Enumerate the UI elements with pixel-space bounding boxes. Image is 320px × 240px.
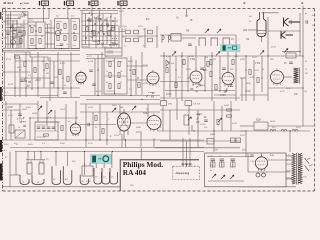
wire bbox=[82, 25, 118, 27]
wire bbox=[169, 110, 171, 140]
small box pair bbox=[231, 138, 236, 143]
junction bbox=[25, 87, 26, 88]
wire bbox=[240, 94, 268, 96]
wire to adapter pin 2 bbox=[186, 141, 188, 165]
wire bbox=[286, 177, 293, 179]
capacitor bbox=[6, 33, 10, 34]
tuning indicator tube bbox=[257, 12, 279, 37]
junction speck bbox=[35, 30, 37, 32]
junction speck bbox=[85, 37, 87, 39]
labels under tube 4B3 bbox=[191, 84, 205, 92]
resistor in can bbox=[118, 84, 120, 89]
sheet border left dash-dot bbox=[2, 9, 4, 192]
trimmer arrow bbox=[218, 118, 222, 122]
shield can IF3 bbox=[71, 19, 80, 49]
junction bbox=[110, 35, 111, 36]
wire bbox=[106, 17, 108, 44]
capacitor bbox=[200, 68, 204, 69]
wire bus top bbox=[160, 55, 240, 57]
junction bbox=[245, 55, 246, 56]
wire bus bbox=[240, 55, 303, 57]
capacitor bbox=[13, 29, 17, 30]
wire bbox=[163, 52, 165, 101]
wire bbox=[227, 52, 229, 73]
wire bbox=[106, 112, 108, 145]
resistor bbox=[95, 116, 97, 121]
wire bus bbox=[80, 95, 160, 97]
resistor bbox=[215, 85, 217, 90]
wire bus bbox=[3, 50, 80, 52]
wire bbox=[67, 152, 69, 167]
sheet border bottom dashed bbox=[3, 190, 315, 192]
wire bbox=[187, 56, 189, 92]
wire bbox=[16, 20, 18, 48]
small box PV bbox=[207, 139, 214, 145]
capacitor bbox=[20, 80, 24, 81]
capacitor bbox=[18, 114, 22, 115]
input socket box 2 bbox=[185, 101, 192, 106]
wire bbox=[3, 109, 20, 111]
small parts top-left bbox=[20, 12, 26, 17]
IF can S3 top symbol bbox=[89, 1, 98, 6]
junction bbox=[55, 151, 56, 152]
wire bbox=[6, 43, 22, 45]
highlight badge on capacitor 4C52 bbox=[221, 45, 241, 52]
IF can S2 top symbol bbox=[65, 1, 74, 6]
junction speck bbox=[29, 25, 31, 27]
resistor bbox=[227, 109, 232, 111]
wire from S1 down bbox=[42, 6, 44, 23]
wire tube to output transformer bbox=[284, 76, 292, 78]
resistor bbox=[227, 115, 232, 117]
wire bbox=[57, 52, 59, 97]
labels under tube 4B4 bbox=[224, 84, 233, 92]
wire bbox=[160, 139, 204, 141]
svg-text:5k: 5k bbox=[120, 82, 122, 84]
wire bbox=[31, 57, 33, 90]
wire bbox=[81, 11, 83, 49]
resistor bbox=[257, 78, 259, 83]
trimmer circle bbox=[55, 30, 60, 35]
choke bump 1 bbox=[270, 129, 276, 131]
trimmer capacitor block 4 bbox=[134, 38, 139, 42]
wire bbox=[46, 101, 48, 126]
wire bbox=[27, 152, 29, 161]
tube 4B6 output pentode bbox=[118, 113, 131, 131]
wire bbox=[240, 186, 296, 188]
trimmer arrow bbox=[217, 29, 221, 33]
wire bbox=[65, 104, 67, 140]
junction speck bbox=[167, 61, 168, 62]
junction speck bbox=[97, 69, 98, 70]
resistor bbox=[183, 60, 185, 65]
wire bbox=[95, 17, 97, 48]
wire bbox=[268, 30, 300, 32]
tube 4B2 detector/AF bbox=[147, 70, 159, 86]
junction speck bbox=[60, 29, 62, 31]
wire bbox=[230, 101, 232, 131]
junction bbox=[125, 139, 126, 140]
wire bbox=[28, 18, 49, 20]
svg-text:RA 404: RA 404 bbox=[123, 168, 147, 177]
wire to transformer bbox=[268, 159, 290, 161]
wire bus bbox=[160, 140, 240, 142]
wire tube 4B3 anode bbox=[195, 46, 197, 71]
svg-text:4C60: 4C60 bbox=[200, 124, 206, 126]
wire bbox=[289, 131, 291, 152]
wire bbox=[12, 20, 14, 48]
resistor 4R3 bbox=[31, 39, 33, 44]
junction bbox=[193, 130, 194, 131]
trimmer arrow bbox=[38, 106, 42, 110]
svg-text:10k: 10k bbox=[205, 57, 208, 59]
resistor in can bbox=[109, 84, 111, 89]
resistor bbox=[67, 77, 69, 82]
svg-text:50: 50 bbox=[16, 144, 18, 146]
resistor 4R9 bbox=[74, 25, 76, 30]
wire bbox=[141, 52, 143, 95]
trimmer arrow bbox=[48, 110, 52, 114]
wire bus bbox=[240, 130, 310, 132]
junction bbox=[99, 139, 100, 140]
wire bbox=[85, 104, 87, 147]
svg-text:150: 150 bbox=[33, 26, 36, 28]
junction speck bbox=[43, 69, 44, 70]
wire bbox=[82, 20, 118, 22]
wire stub tick bbox=[185, 15, 188, 17]
capacitor bbox=[222, 68, 226, 69]
svg-text:Adapterplugg: Adapterplugg bbox=[176, 172, 190, 175]
svg-text:0,5M: 0,5M bbox=[224, 105, 229, 107]
resistor bbox=[108, 31, 110, 36]
svg-text:4z: 4z bbox=[312, 15, 314, 17]
resistor in can bbox=[109, 62, 111, 67]
wire to title box area bbox=[140, 148, 142, 160]
IF can S4 top symbol bbox=[118, 1, 127, 6]
capacitor 4C4 bbox=[60, 44, 64, 45]
trimmer arrow bbox=[260, 51, 264, 55]
wire bbox=[26, 159, 45, 161]
tube 4B1 IF amplifier bbox=[76, 70, 86, 84]
wire AVC bus bbox=[3, 87, 80, 89]
junction speck bbox=[62, 77, 63, 78]
svg-text:25.07: 25.07 bbox=[252, 57, 258, 59]
junction speck bbox=[91, 30, 93, 32]
svg-text:25k: 25k bbox=[304, 91, 307, 93]
junction bbox=[102, 31, 103, 32]
wire bbox=[11, 36, 22, 38]
junction bbox=[112, 151, 113, 152]
wire bbox=[97, 55, 99, 96]
switch wafer 8 bbox=[110, 168, 118, 184]
junction bbox=[46, 117, 47, 118]
mains transformer primary winding bbox=[292, 154, 295, 185]
svg-text:45.07: 45.07 bbox=[271, 47, 277, 49]
pot box bbox=[9, 125, 14, 133]
adapter socket dashed box bbox=[173, 166, 200, 179]
wire bbox=[175, 56, 177, 97]
svg-text:15: 15 bbox=[312, 25, 314, 27]
resistor bbox=[61, 126, 63, 131]
capacitor bbox=[92, 84, 96, 85]
wire bbox=[10, 174, 20, 176]
choke bump 2 bbox=[281, 129, 287, 131]
filament circle b bbox=[262, 173, 266, 177]
resistor bbox=[166, 68, 168, 73]
wire bbox=[101, 52, 103, 95]
wire bbox=[110, 14, 112, 49]
padder cap 2 bbox=[211, 38, 218, 46]
resistor 4R4 bbox=[39, 39, 41, 44]
wire bbox=[92, 112, 94, 140]
sheet border top dashed bbox=[3, 8, 315, 10]
wire bbox=[53, 61, 55, 88]
wire bbox=[6, 14, 29, 16]
wire bbox=[88, 17, 90, 48]
wire bbox=[14, 54, 80, 56]
junction bbox=[245, 130, 246, 131]
wire bbox=[5, 101, 7, 140]
wire bbox=[153, 138, 155, 148]
resistor 4R10 bbox=[74, 36, 76, 41]
junction speck bbox=[129, 69, 130, 70]
resistor bbox=[86, 27, 88, 32]
mains transformer secondary winding bbox=[299, 154, 302, 184]
wire bbox=[4, 52, 6, 101]
earth arrow bbox=[212, 174, 216, 178]
wire bbox=[165, 90, 235, 92]
junction bbox=[289, 130, 290, 131]
resistor bbox=[207, 62, 209, 67]
wire bbox=[181, 52, 183, 101]
resistor bbox=[133, 70, 135, 75]
wire bbox=[127, 79, 148, 81]
wire bbox=[121, 134, 123, 148]
svg-text:4R45: 4R45 bbox=[28, 144, 33, 146]
resistor bbox=[249, 70, 251, 75]
junction bbox=[16, 34, 17, 35]
wire stub from top border bbox=[186, 9, 188, 17]
wire bbox=[282, 51, 301, 53]
wire bbox=[140, 131, 142, 147]
trimmer arrow bbox=[284, 49, 288, 53]
tube 4B4 bbox=[222, 71, 234, 87]
wire bbox=[241, 78, 243, 101]
wire bbox=[9, 152, 11, 188]
wire power box bottom bbox=[208, 180, 244, 182]
capacitor 4C2 bbox=[18, 31, 22, 32]
wire long bus bbox=[158, 130, 245, 132]
svg-text:1M: 1M bbox=[46, 73, 49, 75]
wire bbox=[247, 153, 249, 172]
wire bbox=[86, 54, 104, 56]
wire bbox=[181, 37, 196, 39]
adapter pin 3 bbox=[189, 164, 192, 167]
svg-text:1k: 1k bbox=[18, 127, 20, 129]
wire bbox=[55, 152, 57, 167]
svg-text:JA.: JA. bbox=[176, 17, 180, 20]
wire inside power box bbox=[207, 156, 250, 158]
wire bbox=[261, 56, 263, 92]
wire rectifier anode bbox=[261, 154, 263, 157]
wire to adapter pin 3 bbox=[189, 138, 191, 165]
wire bbox=[82, 40, 118, 42]
svg-text:4R36: 4R36 bbox=[286, 88, 291, 90]
wire bus bbox=[86, 99, 160, 101]
scan mark left edge b bbox=[0, 140, 2, 152]
junction bbox=[14, 87, 15, 88]
wire bbox=[204, 56, 206, 92]
wire bbox=[80, 124, 116, 126]
wire bbox=[15, 152, 17, 176]
wire bbox=[45, 32, 55, 34]
junction bbox=[141, 99, 142, 100]
svg-text:4C25: 4C25 bbox=[8, 84, 14, 86]
svg-text:4R30: 4R30 bbox=[220, 95, 226, 97]
capacitor electrolytic bbox=[63, 92, 67, 93]
box with diagonal bbox=[15, 130, 25, 138]
wire bbox=[6, 18, 22, 20]
wire bbox=[7, 14, 9, 48]
shield can IF4 bbox=[104, 58, 127, 94]
tube 4B5 output pentode bbox=[271, 69, 284, 86]
trimmer capacitor block 5 bbox=[148, 30, 153, 34]
svg-text:10k NS: 10k NS bbox=[193, 104, 201, 106]
svg-text:4R9: 4R9 bbox=[243, 30, 248, 32]
wire bbox=[37, 52, 39, 97]
wire bbox=[82, 35, 118, 37]
junction bbox=[85, 139, 86, 140]
trimmer capacitor block 2 bbox=[134, 30, 139, 34]
padder cap 1 bbox=[199, 38, 206, 46]
resistor bbox=[232, 60, 234, 65]
labels cluster bbox=[24, 78, 40, 86]
tone control cluster bbox=[197, 114, 207, 123]
junction speck bbox=[73, 32, 75, 34]
electrolytic block bbox=[82, 166, 93, 176]
EQ box bbox=[254, 122, 268, 130]
resistor bbox=[59, 70, 61, 75]
svg-text:25k: 25k bbox=[305, 73, 308, 75]
shield can AF bbox=[35, 122, 58, 140]
junction speck bbox=[261, 77, 262, 78]
sheet border right dashed bbox=[314, 9, 316, 192]
wire bus bbox=[155, 147, 240, 149]
wire long bbox=[82, 31, 125, 33]
wire bbox=[14, 55, 16, 98]
wire bbox=[267, 56, 269, 101]
svg-text:NSV: NSV bbox=[214, 150, 219, 152]
wire bbox=[82, 47, 119, 49]
transformer lead bbox=[286, 156, 292, 179]
wire HT rail bbox=[302, 9, 304, 126]
wire bbox=[45, 27, 55, 29]
wire to adapter pin 1 bbox=[182, 138, 184, 165]
wire bbox=[240, 77, 246, 79]
svg-text:4C48: 4C48 bbox=[245, 91, 251, 93]
svg-text:4z: 4z bbox=[210, 170, 212, 172]
svg-text:0,5M: 0,5M bbox=[190, 59, 195, 61]
wire bbox=[240, 125, 254, 127]
wire bbox=[82, 13, 118, 15]
resistor bbox=[24, 62, 26, 67]
junction bbox=[57, 87, 58, 88]
wire bus bbox=[80, 147, 160, 149]
svg-text:AB: AB bbox=[186, 30, 190, 33]
capacitor bbox=[250, 155, 254, 156]
output transformer winding bbox=[294, 68, 300, 84]
wire bus bottom of cans bbox=[3, 48, 80, 50]
junction speck bbox=[112, 20, 114, 22]
wire bbox=[99, 11, 101, 45]
svg-text:15: 15 bbox=[305, 69, 307, 71]
svg-text:10.: 10. bbox=[231, 38, 235, 41]
wire bbox=[211, 52, 213, 101]
wire bbox=[37, 101, 39, 122]
wire bbox=[268, 87, 303, 89]
wire bbox=[40, 152, 42, 161]
switch wafer 2 bbox=[32, 175, 44, 185]
wire bbox=[18, 26, 20, 48]
wire bus bbox=[160, 97, 240, 99]
trimmer circle bbox=[11, 40, 16, 45]
adapter pin 2 bbox=[185, 164, 188, 167]
switch wafer 7 bbox=[102, 168, 110, 184]
switch wafer 1 bbox=[20, 175, 29, 185]
junction bbox=[213, 130, 214, 131]
wire bbox=[188, 105, 190, 135]
svg-text:4C28: 4C28 bbox=[88, 61, 94, 63]
junction bbox=[10, 27, 11, 28]
wire bbox=[70, 52, 72, 97]
wire bbox=[62, 61, 64, 90]
junction bbox=[16, 32, 17, 33]
shield can IF2 bbox=[55, 19, 70, 49]
wire bbox=[80, 186, 120, 188]
wire bbox=[75, 101, 77, 124]
wire bbox=[160, 109, 240, 111]
svg-text:4R61: 4R61 bbox=[210, 134, 216, 136]
junction speck bbox=[245, 69, 246, 70]
wire bbox=[3, 103, 38, 105]
svg-text:4C61: 4C61 bbox=[4, 144, 9, 146]
resistor bbox=[175, 83, 177, 88]
wire bbox=[80, 111, 160, 113]
svg-text:1M: 1M bbox=[213, 59, 216, 61]
wire bbox=[43, 57, 45, 88]
svg-text:80: 80 bbox=[41, 36, 43, 38]
wire bbox=[25, 52, 27, 97]
resistor 4R1 bbox=[31, 28, 33, 33]
svg-text:8k: 8k bbox=[262, 69, 264, 71]
junction speck bbox=[100, 18, 102, 20]
wire bbox=[82, 44, 119, 46]
capacitor bbox=[89, 70, 93, 71]
parts cluster bbox=[17, 117, 26, 127]
mixer parts cluster bbox=[91, 32, 104, 45]
wire bbox=[20, 24, 22, 48]
wire bbox=[80, 103, 160, 105]
small can top bbox=[105, 48, 122, 56]
wire bbox=[197, 110, 199, 147]
trimmer capacitor block 3 bbox=[126, 38, 131, 42]
junction bbox=[267, 55, 268, 56]
svg-text:◆ 11MAX: ◆ 11MAX bbox=[20, 2, 30, 5]
svg-text:50k: 50k bbox=[204, 127, 207, 129]
speaker jack bottom bbox=[281, 31, 293, 39]
wire bbox=[147, 104, 149, 117]
junction speck bbox=[203, 69, 204, 70]
